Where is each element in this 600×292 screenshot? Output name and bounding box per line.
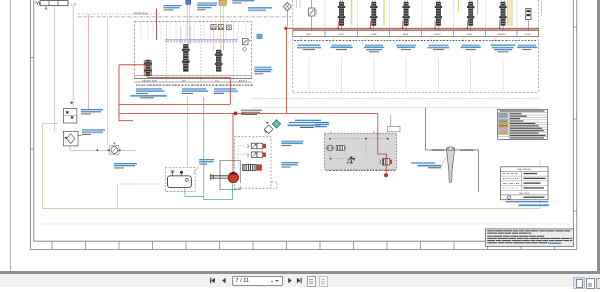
cyclone label leader [442,156,447,164]
small check valve [227,25,232,30]
pressure test gauge [110,142,119,154]
internal port lines [141,21,246,39]
manifold label 2 [281,162,298,167]
block bottom part row [326,170,395,171]
tan coil leads [220,5,223,50]
gauge vertical drop [107,17,109,145]
leader line x341 [330,37,336,45]
solenoid box 1 label [81,109,103,114]
sheet frame inner border [34,0,574,241]
block relief valve [380,159,392,165]
red supply corner into priority [119,65,145,121]
junction label text [241,110,262,115]
solenoid valve SV1 [248,143,267,149]
wide highlighted label left [130,95,167,99]
prev page button [222,278,225,283]
leader line x527 [515,37,521,45]
priority inlet spool [144,60,152,76]
svg-text:1 CF: 1 CF [71,4,77,7]
breather [171,171,175,176]
steering line purple dash-dot rail [78,16,291,18]
junction arrow [71,102,74,104]
hand valve top-left corner [35,1,68,10]
part number row [136,85,253,86]
relief valve aux section [242,39,250,45]
blue coil leads [187,4,189,44]
check valve pair [211,25,224,30]
solenoid box 1 [63,108,77,123]
last page button [297,278,302,283]
svg-text:DUMP: DUMP [467,34,473,36]
red pressure line lower [119,112,378,114]
bank work section spool 3 [402,0,410,31]
block top ticks [330,131,375,133]
notes block [485,229,573,247]
bank supply riser [284,27,287,114]
solenoid coil blue block [186,0,191,4]
block label [315,124,330,128]
tan enclosure bottom [43,208,541,210]
leader line x406 [394,37,400,45]
tan enclosure left [43,124,59,209]
drain junction dot [384,173,388,177]
gauge label [114,163,137,168]
outlet check element [526,9,531,31]
leader line x503 [491,37,497,45]
section dividers [167,21,234,82]
bank work section spool 1 [337,0,345,31]
big teal-highlight label (loader feed) [287,120,329,128]
loader valve port drop [186,97,188,168]
tank label [199,159,214,164]
sheet frame outer border [30,0,577,250]
red feed into block [378,113,387,158]
bank work section spool 6 [499,0,507,31]
proportional relief bar [243,164,262,170]
bank section label cluster x309 [297,44,321,50]
aux orifice diamond [242,47,247,52]
label cluster below box 3 [214,88,238,93]
filler cap [180,171,183,176]
bank label band [293,31,539,37]
gauge line [70,146,136,151]
bank section label cluster x341 [330,45,353,50]
label cluster aux right [254,67,272,75]
label cluster below box 2 [182,88,209,93]
purple connector comb [165,39,238,42]
sight glass [185,178,188,181]
block junction dots [329,138,388,160]
lift spool [182,44,190,71]
pump manifold dashed enclosure [235,137,271,188]
inlet relief valve [309,0,317,31]
svg-text:OUTLET: OUTLET [525,34,532,36]
hammer line right [455,150,478,192]
red drain from block [385,165,387,173]
suction S-bend [185,184,233,200]
leader line x374 [362,37,368,45]
pump housing box [220,161,240,190]
svg-text:STEERING: STEERING [497,34,506,36]
filter box 2 label [82,129,105,134]
notes under table [506,201,550,206]
color legend table [498,109,548,139]
cyclone separator [446,147,455,183]
pink return riser [88,14,90,110]
manifold label 1 [281,141,303,146]
pump drive shaft [210,174,228,180]
label cluster top A [164,5,182,10]
pressure bus dark parallel [293,29,539,31]
tan enclosure inner [118,160,541,209]
red steering feed [156,9,158,41]
gear pump P1 [228,172,238,183]
teal filter diamond [272,120,281,129]
faint lower rail [36,223,570,225]
manifold notch [271,182,277,188]
bank section label cluster x470 [460,45,481,50]
bypass diamond [264,125,273,134]
bank section label cluster x406 [396,45,416,50]
svg-text:PRIORITY INLET: PRIORITY INLET [143,80,159,82]
bank section label cluster x527 [517,45,538,50]
bank section dividers [325,31,517,37]
next page button [288,278,291,283]
lift spool pilot lines [181,26,190,44]
shuttle drain [347,157,355,164]
svg-text:CALLOUTS: CALLOUTS [519,192,530,195]
wire to solenoid box 1 [54,6,56,131]
leader line x438 [426,37,432,45]
wire to solenoid box 2 [72,6,74,108]
svg-text:HITCH: HITCH [339,34,345,36]
svg-text:LINE OPTIONS: LINE OPTIONS [517,169,532,171]
label HAMMER OUT [460,149,474,150]
manifold internal dotted lines [238,146,266,168]
pressure bus red [285,27,539,29]
viewer chrome [10,0,11,271]
bright blue tag [257,34,263,39]
red priority loop bottom [148,76,231,105]
bank part number row [294,39,536,42]
junction dot supply [234,111,238,115]
line options table [501,167,549,200]
bank section frame verticals [325,0,517,31]
yellow pilot lines [352,0,513,26]
red pressure line upper [119,103,230,105]
leader line x470 [459,37,465,45]
bottom right page-mode icons [573,277,586,289]
manifold breather [265,129,268,132]
tan coil block [219,0,226,5]
bank work section spool 4 [434,0,442,31]
tan pilot line right [541,0,543,16]
green pilot line [477,0,479,15]
accumulator coil [327,145,347,150]
label cluster top D [232,0,254,3]
loader control valve dashed enclosure [134,21,251,78]
loader valve section label band [134,76,251,82]
svg-text:AUX/TILT: AUX/TILT [239,79,248,82]
red leader [77,135,82,137]
reservoir dashed enclosure [165,168,195,192]
svg-text:INLET: INLET [307,34,312,36]
steering line pink dashed rail [78,13,160,15]
block internal dotted [330,139,390,159]
svg-text:STEERING(S) →: STEERING(S) → [134,14,152,16]
gray dotted rail 2 [252,107,539,109]
bank work section spool 2 [370,0,378,31]
tilt spool [215,50,223,71]
bank work section spool 5 [467,0,475,31]
svg-text:RAISE: RAISE [403,33,409,36]
hydraulic block body [324,133,397,169]
label cluster top C [248,7,273,11]
filter box 2 [63,131,78,146]
red stub [119,120,133,122]
svg-text:BUCKET: BUCKET [434,34,441,36]
first page button [210,278,215,283]
filter sub box [388,115,401,132]
junction dot [267,122,269,124]
hammer line left [425,108,446,150]
bank section label cluster x503 [491,44,516,52]
bank drain drops [309,58,503,93]
pump pressure riser [232,113,234,171]
frame zone ticks bottom [52,241,555,249]
inlet top stubs [297,0,301,8]
cyclone label [411,162,442,168]
label HAMMER IN [432,149,445,150]
pilot diamond symbol [283,2,291,26]
leader line x309 [297,37,303,45]
priority spool red channels [144,60,151,76]
tank label leader [193,166,199,174]
gray dotted rail 1 [252,98,539,100]
solenoid valve SV2 [248,152,267,158]
bank section label cluster x438 [427,45,449,50]
return line from loader valve [203,97,205,197]
tilt spool pilot lines [214,30,224,50]
bank section label cluster x374 [364,45,385,53]
svg-text:LOWER: LOWER [370,34,377,36]
valve bank dashed enclosure [293,0,539,93]
label cluster top B [197,3,217,11]
label cluster below box 1 [136,88,165,93]
frame zone ticks sides [30,27,577,211]
reservoir tank [168,176,192,188]
